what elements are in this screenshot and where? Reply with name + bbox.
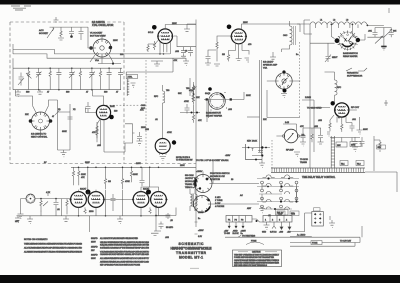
neutralizing cap below	[325, 43, 331, 62]
svg-text:FRONT WAFER: FRONT WAFER	[206, 115, 222, 118]
svg-text:TIME DELAY RELAY CONTROL: TIME DELAY RELAY CONTROL	[302, 176, 336, 179]
svg-text:4: 4	[286, 219, 287, 221]
svg-text:V1 SOCKET: V1 SOCKET	[90, 33, 103, 35]
svg-text:RL2: RL2	[357, 163, 362, 165]
svg-text:100K: 100K	[133, 174, 138, 176]
svg-text:47K: 47K	[81, 177, 85, 179]
stepped wire L1	[13, 44, 170, 54]
boxed relay label	[276, 210, 289, 216]
horizontal y117 wire right	[247, 116, 260, 118]
tube V7 driver	[155, 139, 170, 156]
svg-text:P3: P3	[241, 219, 243, 221]
svg-text:AC: AC	[240, 194, 243, 197]
transformer T1 coil	[282, 21, 296, 52]
note text under V7	[176, 157, 193, 162]
svg-text:+250V: +250V	[198, 230, 204, 232]
scan border bottom band	[0, 275, 400, 283]
svg-text:300V: 300V	[85, 162, 90, 164]
svg-text:50MFD: 50MFD	[91, 238, 98, 240]
svg-text:ACC: ACC	[39, 29, 44, 32]
audio ground bus	[17, 215, 171, 217]
RL1 down arrows	[224, 222, 247, 235]
svg-text:3: 3	[279, 219, 280, 221]
vertical line right of notes	[89, 216, 91, 232]
svg-text:ALL MEASUREMENTS MADE WITH 117: ALL MEASUREMENTS MADE WITH 117V AC LINE …	[100, 257, 150, 260]
svg-text:KEY JACK: KEY JACK	[247, 140, 258, 143]
svg-text:B+: B+	[198, 218, 201, 220]
tube V14 audio 4	[151, 192, 168, 208]
svg-text:1M: 1M	[222, 54, 225, 56]
decoupling caps right of V2	[174, 36, 196, 58]
svg-text:SUPPRESSOR: SUPPRESSOR	[347, 76, 363, 78]
V3 grid resistor	[214, 36, 231, 66]
svg-text:25V: 25V	[91, 250, 95, 252]
tube V10 PA 6146	[334, 103, 349, 117]
svg-text:6AQ5: 6AQ5	[205, 92, 211, 95]
V7 ground	[160, 157, 166, 161]
svg-text:250V: 250V	[172, 23, 177, 25]
svg-text:10W: 10W	[351, 144, 355, 146]
caution box	[233, 250, 282, 267]
svg-text:1M: 1M	[108, 181, 111, 183]
svg-text:.25: .25	[170, 220, 174, 222]
wire audio interstage	[104, 199, 133, 201]
svg-text:100K: 100K	[110, 106, 115, 108]
half box right of V5	[125, 124, 135, 152]
svg-text:.001: .001	[368, 31, 373, 33]
component row under y68 bus	[26, 67, 123, 90]
svg-text:SHOWN IN CW: SHOWN IN CW	[210, 176, 225, 178]
ground above V9	[270, 52, 276, 61]
svg-text:6.3V AC: 6.3V AC	[270, 231, 277, 234]
title block	[171, 242, 213, 260]
svg-text:X1: X1	[58, 109, 61, 111]
svg-text:NEUT: NEUT	[332, 57, 338, 59]
svg-text:MODEL MT-1: MODEL MT-1	[179, 256, 203, 260]
ground symbol near 57,40	[54, 17, 59, 22]
svg-text:SPEECH AMP: SPEECH AMP	[263, 64, 278, 67]
svg-text:ALL RESISTORS ARE 1/2 WATT UNL: ALL RESISTORS ARE 1/2 WATT UNLESS OTHERW…	[24, 251, 82, 254]
svg-text:KEY OPEN AND FUNCTION SWITCH A: KEY OPEN AND FUNCTION SWITCH AT PHONE	[100, 264, 141, 267]
svg-text:6.3V: 6.3V	[198, 236, 203, 238]
labels on B+ bus	[198, 212, 204, 238]
svg-text:47: 47	[86, 92, 89, 94]
svg-text:365: 365	[393, 31, 397, 33]
small mark near 190,268	[190, 267, 199, 269]
svg-text:350V: 350V	[91, 258, 96, 260]
pin label dot V2	[152, 25, 157, 30]
vertical x267 wire	[267, 90, 300, 118]
svg-text:L3: L3	[346, 20, 349, 22]
svg-text:25MFD: 25MFD	[91, 247, 98, 249]
svg-text:L2: L2	[333, 20, 336, 22]
wire L to 47K	[126, 58, 173, 74]
pin label dot V3	[227, 25, 232, 30]
pin dot V7	[172, 140, 176, 144]
left PA components	[300, 126, 324, 146]
svg-text:P1: P1	[228, 219, 230, 221]
svg-text:600V: 600V	[363, 129, 368, 131]
svg-text:4 PHONE: 4 PHONE	[215, 206, 225, 208]
ground top	[58, 39, 60, 41]
svg-text:47K: 47K	[198, 120, 202, 122]
svg-text:ANTENNA TERMINALS LOADED WITH: ANTENNA TERMINALS LOADED WITH 52 OHM DUM…	[100, 260, 150, 263]
wires around audio tubes	[79, 167, 159, 194]
svg-text:470K: 470K	[184, 101, 189, 103]
svg-text:REAR WAFER: REAR WAFER	[343, 55, 358, 58]
pin dot V10	[331, 101, 335, 105]
svg-text:TO FUNCTION SW: TO FUNCTION SW	[176, 160, 193, 162]
svg-text:47: 47	[47, 92, 50, 94]
stepped wire L2	[13, 50, 186, 59]
cathode resistors below tubes	[84, 207, 151, 213]
svg-text:POWER BEFORE SERVICING THE TRA: POWER BEFORE SERVICING THE TRANSMITTER	[234, 256, 275, 259]
svg-text:10: 10	[231, 179, 234, 181]
V5 wires	[85, 90, 103, 113]
svg-text:.01: .01	[155, 119, 159, 121]
svg-text:.005: .005	[175, 51, 180, 53]
svg-text:BANDSWITCH: BANDSWITCH	[206, 112, 221, 115]
svg-text:+600: +600	[279, 232, 283, 234]
svg-text:.005: .005	[97, 145, 102, 147]
V2 pins and cathode parts	[147, 41, 171, 67]
svg-text:RL1: RL1	[341, 163, 346, 165]
contact grid wiring overlay	[257, 177, 299, 215]
scan border top band	[0, 0, 400, 5]
svg-text:100: 100	[26, 92, 30, 94]
tube V2 buffer 6CL6	[157, 29, 173, 44]
svg-text:.005: .005	[145, 129, 150, 131]
svg-text:BOTTOM VIEW: BOTTOM VIEW	[90, 36, 106, 38]
pi output caps	[367, 25, 397, 50]
switch contact grid	[261, 175, 298, 210]
scan smudge top-left	[11, 6, 31, 10]
tube V12 audio 2	[88, 192, 105, 208]
svg-text:PARASITIC: PARASITIC	[347, 72, 359, 75]
V5 cathode resistor	[96, 119, 101, 139]
svg-text:K EQUALS 1000 OHMS AND M EQUAL: K EQUALS 1000 OHMS AND M EQUALS MEGOHMS …	[100, 244, 150, 247]
svg-text:A+ LEAD: A+ LEAD	[297, 234, 306, 237]
svg-text:THE NUMBERS SHOWN AT SOCKETS A: THE NUMBERS SHOWN AT SOCKETS ARE FOR THE…	[24, 243, 83, 246]
lower bus y89.7	[13, 68, 121, 90]
svg-text:HEATHKIT "CHEYENNE" MOBILE: HEATHKIT "CHEYENNE" MOBILE	[171, 246, 213, 250]
battery loop wiring	[290, 213, 362, 246]
svg-text:SCHEMATIC DIAGRAM OF THE TRANS: SCHEMATIC DIAGRAM OF THE TRANSMITTER RF …	[100, 246, 150, 249]
svg-text:250V: 250V	[113, 40, 118, 42]
V3 cathode network	[227, 43, 249, 63]
svg-text:265V: 265V	[136, 163, 141, 165]
svg-text:.005: .005	[314, 126, 319, 128]
box label mid-left	[126, 74, 137, 78]
svg-text:.001: .001	[352, 119, 357, 121]
tube V3 clipper 12AX7	[231, 29, 247, 44]
svg-text:47K: 47K	[174, 60, 178, 62]
svg-text:TO 12V BAT: TO 12V BAT	[340, 240, 352, 243]
double vertical bus	[260, 60, 262, 155]
mic input jack	[15, 194, 71, 223]
svg-text:P2: P2	[235, 219, 237, 221]
audio plate resistors pair1	[72, 167, 86, 185]
svg-text:RF OUT: RF OUT	[351, 107, 360, 109]
filter caps 50MFD	[151, 205, 176, 235]
V3 left cap gnd	[205, 50, 216, 65]
svg-text:4.7K: 4.7K	[46, 192, 51, 194]
vertical comb branch	[331, 136, 334, 168]
wires from V4 socket	[16, 90, 71, 150]
svg-text:470: 470	[248, 44, 252, 46]
V3 plate line	[242, 24, 311, 30]
svg-text:100K: 100K	[246, 95, 251, 97]
interstage resistors pair2	[104, 167, 144, 189]
tube V5 crystal amp	[96, 105, 110, 119]
svg-text:SCHEMATIC: SCHEMATIC	[179, 242, 205, 246]
svg-text:1 MIC: 1 MIC	[215, 197, 221, 199]
audio input network	[40, 192, 68, 216]
rotary switch S2 function front	[194, 161, 259, 193]
left trimmer	[18, 73, 24, 86]
transformer T2 label box	[314, 208, 321, 211]
svg-text:250V: 250V	[180, 165, 185, 167]
TS1 grounds and arrows	[262, 222, 291, 234]
tube V1 oscillator socket	[88, 36, 121, 65]
svg-text:BLOCK: BLOCK	[233, 233, 240, 235]
svg-text:2 TUNE: 2 TUNE	[215, 200, 223, 202]
svg-text:470K: 470K	[167, 132, 172, 134]
scattered value labels	[25, 20, 368, 240]
svg-text:100: 100	[104, 92, 108, 94]
svg-text:RF AMP: RF AMP	[286, 149, 294, 152]
antenna input cluster	[39, 27, 88, 48]
svg-text:V4A: V4A	[263, 67, 268, 70]
vertical feed lines x310 x314	[302, 57, 314, 169]
grid components left of wafer	[185, 88, 201, 114]
right edge marks	[384, 8, 389, 106]
svg-text:ALL VOLTAGES MEASURED FROM POI: ALL VOLTAGES MEASURED FROM POINT INDICAT…	[24, 247, 82, 250]
svg-text:GND: GND	[262, 232, 267, 234]
choke comb below box	[127, 79, 135, 97]
rotary switch S3 function rear	[194, 196, 260, 213]
junction between strips	[252, 219, 263, 222]
svg-text:22K: 22K	[263, 119, 267, 121]
svg-text:NOTES ON SCHEMATIC: NOTES ON SCHEMATIC	[24, 238, 48, 241]
crystal socket V4	[29, 106, 53, 136]
svg-text:V1A: V1A	[95, 59, 99, 62]
svg-text:680K: 680K	[62, 131, 67, 133]
svg-text:.005: .005	[228, 109, 233, 111]
meter M1	[276, 122, 305, 156]
svg-text:47: 47	[116, 92, 119, 94]
svg-text:XTAL OSCILLATOR: XTAL OSCILLATOR	[92, 24, 114, 27]
svg-text:XTAL: XTAL	[128, 76, 134, 79]
svg-text:22K: 22K	[196, 97, 200, 99]
svg-text:750: 750	[166, 90, 170, 92]
svg-text:OSC: OSC	[141, 105, 146, 107]
svg-text:RFC: RFC	[154, 96, 159, 98]
svg-text:SOCKET: SOCKET	[39, 33, 49, 35]
notes text column 2	[100, 237, 150, 267]
svg-text:X2: X2	[73, 109, 76, 111]
PA right components	[340, 136, 386, 171]
relay RL1 strip	[226, 216, 252, 223]
svg-text:VOLTAGES MEASURED WITH VTVM FR: VOLTAGES MEASURED WITH VTVM FROM POINTS …	[100, 250, 149, 253]
pin dot audio pair2	[146, 190, 151, 195]
cap at 139.5	[137, 132, 143, 146]
PA plate coil	[325, 72, 342, 102]
long vertical bus x196	[195, 20, 197, 228]
misc small right text	[91, 238, 98, 260]
svg-text:ANT: ANT	[247, 207, 252, 210]
dashed divider x272	[271, 140, 273, 168]
dashed coupling vertical x146	[145, 60, 147, 163]
svg-text:B+: B+	[296, 54, 299, 56]
svg-text:0-15: 0-15	[285, 122, 290, 124]
svg-text:BANDSWITCH: BANDSWITCH	[343, 52, 358, 55]
svg-text:220K: 220K	[81, 174, 86, 176]
tube V13 audio 3	[132, 192, 149, 208]
svg-text:12AX7: 12AX7	[80, 188, 87, 191]
svg-text:.01: .01	[57, 209, 61, 211]
svg-text:22K: 22K	[25, 114, 29, 116]
mid left resistor	[96, 122, 98, 142]
svg-text:TO 6146 GRID: TO 6146 GRID	[307, 108, 322, 110]
svg-text:47K: 47K	[300, 126, 304, 128]
svg-text:-110: -110	[287, 232, 290, 234]
svg-text:TRANSMITTER: TRANSMITTER	[176, 251, 207, 255]
svg-text:47K: 47K	[92, 132, 96, 134]
notes text column 1	[24, 238, 83, 254]
svg-text:100: 100	[120, 54, 124, 56]
svg-text:UNLESS OTHERWISE NOTED ALL RES: UNLESS OTHERWISE NOTED ALL RESISTOR VALU…	[100, 241, 150, 244]
svg-text:250V: 250V	[141, 127, 146, 129]
svg-text:1: 1	[265, 219, 266, 221]
pin dot V5	[109, 115, 114, 120]
ground at 186,60	[183, 58, 189, 65]
RFC coil 750	[154, 85, 170, 138]
svg-text:ALL CAPACITOR VALUES IN MFD UN: ALL CAPACITOR VALUES IN MFD UNLESS NOTED	[100, 237, 139, 240]
terminal strip TS1	[263, 216, 292, 223]
svg-text:500 OHM: 500 OHM	[185, 175, 194, 177]
dashed section boundary x299.5	[299, 42, 301, 117]
socket S1 front wafer	[204, 92, 234, 122]
svg-text:1500: 1500	[89, 211, 94, 213]
svg-text:220: 220	[114, 111, 118, 113]
svg-text:TRANS: TRANS	[300, 161, 307, 164]
svg-text:50 MFD: 50 MFD	[166, 227, 174, 229]
svg-text:+250V: +250V	[196, 171, 203, 173]
svg-text:-110V: -110V	[225, 155, 231, 157]
grounds on audio bus	[15, 204, 159, 224]
svg-text:TO SW: TO SW	[224, 233, 230, 235]
pin dot audio pair1	[86, 190, 91, 195]
svg-text:RFC: RFC	[337, 87, 342, 89]
ground right of pin box	[329, 220, 335, 227]
svg-text:L1: L1	[320, 20, 323, 22]
svg-text:47: 47	[52, 116, 55, 118]
power socket pin box	[312, 212, 324, 227]
pin dot near S1F	[208, 87, 212, 91]
svg-text:1/2 12BH7A TO: 1/2 12BH7A TO	[31, 133, 47, 136]
output transformer	[190, 189, 197, 211]
tube V11 audio 1	[70, 192, 87, 208]
wafer comb band	[271, 168, 397, 192]
svg-text:250V: 250V	[243, 22, 248, 24]
fuse bracket on heater bus	[246, 242, 264, 245]
svg-text:12AX7: 12AX7	[143, 188, 150, 191]
pin dot below V9	[283, 89, 287, 93]
bandswitch S1 rear wafer	[310, 24, 365, 50]
svg-text:2: 2	[272, 219, 273, 221]
dashed coupling line from V5	[106, 104, 146, 106]
svg-text:FUSE: FUSE	[251, 241, 257, 243]
wires near S1F	[234, 92, 244, 100]
svg-text:CAUTION: CAUTION	[252, 251, 261, 254]
output text block	[185, 175, 198, 189]
socket V9	[267, 70, 300, 89]
V2 plate line	[165, 25, 196, 29]
svg-text:10MFD: 10MFD	[91, 255, 98, 257]
svg-text:TO MOD: TO MOD	[300, 159, 309, 161]
driver resistor chain	[178, 82, 200, 123]
dashed audio section boundary	[10, 22, 196, 164]
gnd left of V3	[184, 24, 196, 34]
svg-text:OSC: OSC	[283, 35, 288, 37]
resistor arrow right	[190, 78, 197, 96]
component bus y68	[13, 58, 122, 68]
svg-text:TO PIN 1 OF V9 SOCKET VIA R31: TO PIN 1 OF V9 SOCKET VIA R31	[196, 159, 229, 162]
svg-text:40: 40	[185, 51, 188, 53]
svg-text:56K: 56K	[178, 93, 182, 95]
svg-text:0V: 0V	[44, 162, 47, 164]
svg-text:FUSE: FUSE	[312, 243, 318, 245]
svg-text:NEXT CRYSTAL: NEXT CRYSTAL	[31, 136, 48, 139]
svg-text:25K: 25K	[337, 145, 341, 147]
svg-text:1/2 12AX7: 1/2 12AX7	[263, 61, 274, 64]
svg-text:.005: .005	[318, 120, 323, 122]
svg-text:EXPOSED HIGH VOLTAGE TERMINALS: EXPOSED HIGH VOLTAGE TERMINALS	[234, 264, 268, 267]
svg-text:470K: 470K	[125, 181, 130, 183]
function switch text	[196, 159, 230, 208]
heater bus	[225, 236, 360, 238]
svg-text:6CL6: 6CL6	[148, 32, 154, 34]
svg-text:150V: 150V	[91, 242, 96, 244]
value labels row	[26, 92, 119, 94]
pi-network coil chain	[310, 22, 368, 57]
stubs on B+ bus	[195, 210, 198, 234]
audio B+ bus	[71, 166, 196, 168]
svg-text:.005: .005	[165, 237, 170, 239]
svg-text:RELAY: RELAY	[277, 212, 284, 215]
svg-text:BUF: BUF	[141, 108, 146, 110]
svg-text:100: 100	[66, 92, 70, 94]
coupling bracket to bandswitch	[297, 20, 312, 34]
key jack circuit	[242, 140, 270, 168]
svg-text:CHASSIS GROUND WITH NO SIGNAL: CHASSIS GROUND WITH NO SIGNAL INPUT APPL…	[100, 253, 150, 256]
svg-text:2.5MH: 2.5MH	[305, 97, 311, 99]
PA cathode network	[327, 115, 363, 147]
